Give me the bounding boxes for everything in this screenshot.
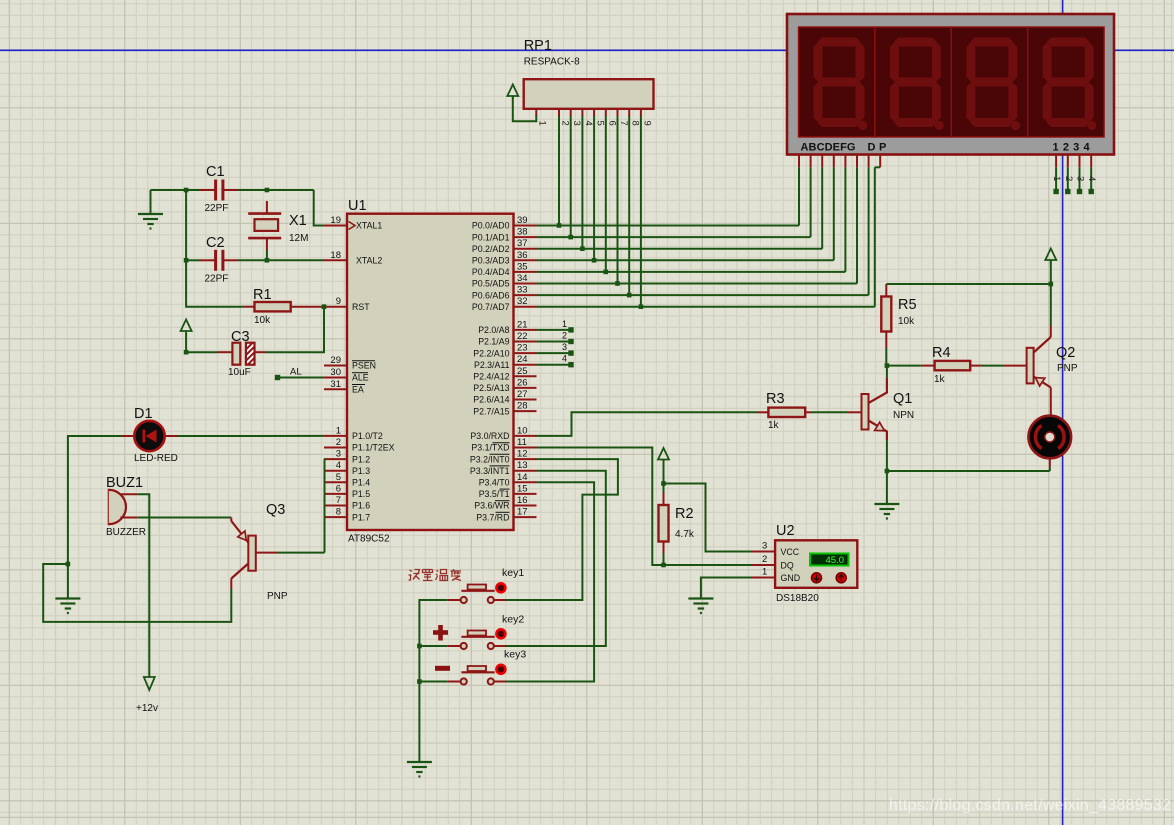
svg-text:25: 25 xyxy=(517,366,528,377)
junction RP1/P0.6 xyxy=(627,293,632,298)
svg-text:34: 34 xyxy=(517,273,528,284)
wire RP1 pin 8 to P0.6 xyxy=(628,116,630,296)
svg-text:XTAL1: XTAL1 xyxy=(356,221,382,231)
capacitor C3 (electrolytic) xyxy=(255,351,267,353)
capacitor C1 xyxy=(200,189,215,191)
svg-text:4: 4 xyxy=(336,460,341,471)
ground (keys) xyxy=(407,762,432,777)
svg-text:P1.4: P1.4 xyxy=(352,478,370,488)
junction D1/ground xyxy=(66,562,71,567)
resistor pack RP1 xyxy=(524,79,654,109)
wire display digit pin 1 xyxy=(1055,167,1057,190)
wire RP1 pin 7 to P0.5 xyxy=(617,116,619,284)
buzzer BUZ1 xyxy=(109,490,126,524)
pushbutton key1 xyxy=(468,585,486,590)
RP1 pin 8 stub xyxy=(628,109,630,116)
U1 pin 39 stub xyxy=(514,225,537,227)
svg-text:P0.7/AD7: P0.7/AD7 xyxy=(472,302,510,312)
power VCC arrow (RP1) xyxy=(507,85,518,100)
resistor R4 xyxy=(887,365,921,367)
svg-text:29: 29 xyxy=(330,355,341,366)
junction R2 top xyxy=(661,481,666,486)
svg-text:P2.5/A13: P2.5/A13 xyxy=(473,383,509,393)
U1 pin 32 stub xyxy=(514,306,537,308)
U1 pin 14 stub xyxy=(514,481,537,483)
motor xyxy=(1029,416,1072,459)
svg-text:1k: 1k xyxy=(768,420,780,431)
wire C2/X1 to XTAL2 xyxy=(186,259,200,261)
ground (C1) xyxy=(150,190,152,214)
U1 pin 11 stub xyxy=(514,447,537,449)
wire VCC rail down to Q2 emitter xyxy=(1050,284,1052,326)
digit 4 segments xyxy=(1043,38,1097,131)
U1 overbars P3 names xyxy=(493,442,510,444)
sensor U2 DS18B20 body xyxy=(775,540,857,588)
svg-text:NPN: NPN xyxy=(893,410,914,421)
svg-text:AL: AL xyxy=(290,367,302,378)
wire key1 to P3.2 xyxy=(506,459,618,600)
svg-text:2: 2 xyxy=(562,331,567,341)
svg-text:2: 2 xyxy=(336,437,341,448)
wire C1 net (top) xyxy=(151,189,187,191)
svg-text:1: 1 xyxy=(562,319,567,329)
RP1 pin 2 stub xyxy=(558,109,560,116)
wire left rail C1-C2 xyxy=(185,190,187,260)
svg-text:9: 9 xyxy=(336,296,341,307)
RP1 pin 3 stub xyxy=(570,109,572,116)
U1 pin 3 stub xyxy=(324,458,347,460)
svg-text:R5: R5 xyxy=(898,297,917,313)
svg-text:30: 30 xyxy=(330,367,341,378)
U1 pin 17 stub xyxy=(514,516,537,518)
svg-text:37: 37 xyxy=(517,238,528,249)
digit 2 segments xyxy=(890,38,944,131)
U1 pin 34 stub xyxy=(514,283,537,285)
svg-text:P3.2/INT0: P3.2/INT0 xyxy=(470,454,510,464)
svg-text:7: 7 xyxy=(336,495,341,506)
svg-text:1: 1 xyxy=(537,121,548,126)
svg-text:15: 15 xyxy=(517,483,528,494)
svg-text:3: 3 xyxy=(571,121,582,126)
svg-text:P1.2: P1.2 xyxy=(352,454,370,464)
svg-text:10k: 10k xyxy=(254,315,271,326)
junction R2 bottom xyxy=(661,563,666,568)
svg-text:VCC: VCC xyxy=(781,547,800,557)
ground (left loop) xyxy=(55,599,80,614)
svg-text:22PF: 22PF xyxy=(205,203,229,214)
svg-text:C1: C1 xyxy=(206,164,225,180)
label 设置温度 (set temperature) xyxy=(409,569,462,581)
wire RP1 pin 6 to P0.4 xyxy=(605,116,607,272)
wire P0.3 net (pin 36 to display) xyxy=(537,259,834,261)
svg-text:9: 9 xyxy=(641,121,652,126)
U1 pin 7 stub xyxy=(324,505,347,507)
svg-text:P2.2/A10: P2.2/A10 xyxy=(473,348,509,358)
svg-text:17: 17 xyxy=(517,507,528,518)
svg-text:3: 3 xyxy=(762,541,767,552)
junction left rail top xyxy=(184,188,189,193)
svg-text:P3.5/T1: P3.5/T1 xyxy=(479,489,510,499)
wire RST to C3 xyxy=(266,307,324,353)
U1 pin 27 stub xyxy=(514,399,537,401)
power VCC arrow (motor) xyxy=(1045,249,1056,264)
digit 1 segments xyxy=(814,38,868,131)
svg-text:1k: 1k xyxy=(934,374,946,385)
U2 pin 3 stub xyxy=(752,551,776,553)
svg-text:P0.4/AD4: P0.4/AD4 xyxy=(472,267,510,277)
svg-text:2: 2 xyxy=(560,121,571,126)
U2 pin 2 stub xyxy=(752,564,776,566)
RP1 pin 7 stub xyxy=(617,109,619,116)
svg-text:22PF: 22PF xyxy=(205,274,229,285)
svg-text:23: 23 xyxy=(517,343,528,354)
U1 pin 28 stub xyxy=(514,410,537,412)
svg-text:U2: U2 xyxy=(776,523,795,539)
svg-text:R3: R3 xyxy=(766,391,785,407)
wire RP1 pin 2 to P0.0 xyxy=(558,116,560,226)
wire RP1 pin 5 to P0.3 xyxy=(593,116,595,261)
junction RP1/P0.7 xyxy=(639,304,644,309)
svg-text:35: 35 xyxy=(517,261,528,272)
junction RP1/P0.4 xyxy=(604,270,609,275)
U1 pin 8 stub xyxy=(324,516,347,518)
U2 temperature readout 45.0 xyxy=(810,554,849,566)
junction RP1/P0.5 xyxy=(615,281,620,286)
svg-text:7: 7 xyxy=(618,121,629,126)
svg-text:P1.0/T2: P1.0/T2 xyxy=(352,431,383,441)
wire VCC to U2 pin3 xyxy=(664,484,752,552)
wire P0.2 net (pin 37 to display) xyxy=(537,248,823,250)
svg-text:P0.0/AD0: P0.0/AD0 xyxy=(472,221,510,231)
svg-text:P3.4/T0: P3.4/T0 xyxy=(479,478,510,488)
svg-text:19: 19 xyxy=(330,215,341,226)
svg-text:P3.3/INT1: P3.3/INT1 xyxy=(470,466,510,476)
svg-text:3: 3 xyxy=(562,342,567,352)
svg-text:36: 36 xyxy=(517,250,528,261)
svg-text:5: 5 xyxy=(595,121,606,126)
svg-text:45.0: 45.0 xyxy=(826,555,845,566)
svg-text:Q3: Q3 xyxy=(266,502,285,518)
svg-text:Q2: Q2 xyxy=(1056,345,1075,361)
svg-text:PNP: PNP xyxy=(267,591,288,602)
wire P2.1 net terminal xyxy=(537,341,570,343)
pushbutton key2 xyxy=(468,631,486,636)
svg-text:P2.1/A9: P2.1/A9 xyxy=(478,337,509,347)
svg-text:R1: R1 xyxy=(253,287,272,303)
svg-text:P1.1/T2EX: P1.1/T2EX xyxy=(352,443,395,453)
RP1 pin 5 stub xyxy=(593,109,595,116)
RP1 pin 9 stub xyxy=(640,109,642,116)
U2 down button xyxy=(812,573,822,583)
svg-text:1234: 1234 xyxy=(1053,142,1094,154)
svg-text:4: 4 xyxy=(562,354,567,364)
svg-text:24: 24 xyxy=(517,354,528,365)
svg-text:ALE: ALE xyxy=(352,373,369,383)
junction C2 left xyxy=(184,258,189,263)
transistor Q2 (PNP) xyxy=(1027,348,1034,384)
U1 pin 22 stub xyxy=(514,341,537,343)
terminal digit 3 xyxy=(1077,189,1082,194)
minus symbol xyxy=(435,666,450,671)
wire key2 to P3.3 xyxy=(506,471,606,646)
terminal AL xyxy=(275,375,280,380)
svg-text:AT89C52: AT89C52 xyxy=(348,534,390,545)
svg-text:6: 6 xyxy=(336,483,341,494)
wire RP1 pin 3 to P0.1 xyxy=(570,116,572,238)
svg-text:RST: RST xyxy=(352,302,370,312)
wire BUZ1 top to +12v xyxy=(138,494,150,677)
sheet border horizontal (blue) xyxy=(0,49,1174,51)
wire R3 to Q1 base xyxy=(812,411,848,413)
U1 overbars PSEN ALE EA xyxy=(352,360,375,362)
U1 pin 4 stub xyxy=(324,470,347,472)
plus symbol xyxy=(433,625,448,641)
svg-text:X1: X1 xyxy=(289,213,307,229)
svg-text:5: 5 xyxy=(336,472,341,483)
display segment pin stubs xyxy=(798,155,800,168)
svg-text:P0.5/AD5: P0.5/AD5 xyxy=(472,279,510,289)
wire bottom rail Q1 emitter to motor xyxy=(887,470,1050,472)
junction X1 bottom xyxy=(265,258,270,263)
U1 pin 30 stub xyxy=(324,377,347,379)
display digit panel 4 xyxy=(1028,27,1104,137)
svg-text:PSEN: PSEN xyxy=(352,361,376,371)
svg-text:C2: C2 xyxy=(206,235,225,251)
digit 3 segments xyxy=(966,38,1020,131)
svg-text:P3.0/RXD: P3.0/RXD xyxy=(470,431,509,441)
svg-text:4: 4 xyxy=(583,121,594,126)
wire X1 bottom to XTAL2 net xyxy=(266,250,268,260)
junction RP1/P0.1 xyxy=(568,235,573,240)
svg-text:1: 1 xyxy=(336,425,341,436)
wire P2.0 net terminal xyxy=(537,329,570,331)
wire P0.0 net (pin 39 to display) xyxy=(537,225,800,227)
svg-text:P1.3: P1.3 xyxy=(352,466,370,476)
wire C3 to VCC xyxy=(186,351,218,353)
svg-text:P1.5: P1.5 xyxy=(352,489,370,499)
junction RST xyxy=(322,304,327,309)
ground (Q1) xyxy=(874,504,899,519)
display digit panel 1 xyxy=(799,27,875,137)
U1 pin 33 stub xyxy=(514,294,537,296)
junction key2 rail xyxy=(417,644,422,649)
svg-text:18: 18 xyxy=(330,250,341,261)
svg-text:BUZ1: BUZ1 xyxy=(106,475,143,491)
wire display digit pin 2 xyxy=(1067,167,1069,190)
svg-text:38: 38 xyxy=(517,227,528,238)
capacitor C2 xyxy=(200,259,215,261)
U1 pin 1 stub xyxy=(324,435,347,437)
svg-text:2: 2 xyxy=(762,554,767,565)
svg-text:DS18B20: DS18B20 xyxy=(776,593,819,604)
display digit panel 2 xyxy=(875,27,951,137)
resistor R5 xyxy=(881,297,891,332)
svg-text:27: 27 xyxy=(517,389,528,400)
svg-text:P3.7/RD: P3.7/RD xyxy=(476,512,509,522)
svg-text:D1: D1 xyxy=(134,406,153,422)
svg-text:DP: DP xyxy=(868,142,890,154)
svg-text:11: 11 xyxy=(517,437,527,448)
power +12v arrow xyxy=(144,677,155,690)
power VCC arrow (C3) xyxy=(181,320,192,335)
U1 pin 26 stub xyxy=(514,387,537,389)
svg-text:Q1: Q1 xyxy=(893,391,912,407)
wire to ground (left) xyxy=(67,564,69,599)
U2 pin 1 stub xyxy=(752,577,776,579)
svg-text:8: 8 xyxy=(630,121,641,126)
wire display digit pin 3 xyxy=(1079,167,1081,190)
wire Q3 collector to ground loop xyxy=(43,564,231,622)
svg-text:P3.6/WR: P3.6/WR xyxy=(474,501,509,511)
svg-text:3: 3 xyxy=(1075,176,1086,181)
svg-text:R4: R4 xyxy=(932,345,951,361)
wire U2 GND to ground xyxy=(701,578,752,599)
svg-text:10: 10 xyxy=(517,425,528,436)
junction key3 rail xyxy=(417,679,422,684)
wire P2.2 net terminal xyxy=(537,352,570,354)
LED D1 xyxy=(122,435,134,437)
svg-text:22: 22 xyxy=(517,331,528,342)
wire Q1 emitter down xyxy=(886,440,888,471)
junction C1/X1 top xyxy=(265,188,270,193)
wire P3.1 to DQ xyxy=(537,448,752,566)
key3 actuator dot xyxy=(496,665,505,674)
svg-text:P2.6/A14: P2.6/A14 xyxy=(473,395,509,405)
svg-text:RP1: RP1 xyxy=(524,38,552,54)
wire key3 to P3.4 xyxy=(506,482,594,681)
svg-text:P0.3/AD3: P0.3/AD3 xyxy=(472,256,510,266)
svg-text:R2: R2 xyxy=(675,506,694,522)
svg-text:P0.1/AD1: P0.1/AD1 xyxy=(472,232,510,242)
wire D1 cathode net xyxy=(68,436,122,564)
transistor Q3 (PNP) xyxy=(248,536,256,571)
resistor R3 xyxy=(758,411,769,413)
svg-text:PNP: PNP xyxy=(1057,363,1078,374)
svg-text:P1.6: P1.6 xyxy=(352,501,370,511)
display digit pin stubs xyxy=(1055,155,1057,168)
svg-text:13: 13 xyxy=(517,460,528,471)
crystal X1 xyxy=(266,201,268,214)
wire D1 anode net xyxy=(177,435,324,437)
power VCC arrow (R2) xyxy=(658,448,669,463)
svg-text:C3: C3 xyxy=(231,329,250,345)
U1 pin 23 stub xyxy=(514,352,537,354)
junction RP1/P0.0 xyxy=(557,223,562,228)
RP1 pin 6 stub xyxy=(605,109,607,116)
transistor Q1 (NPN) xyxy=(848,411,862,413)
wire BUZ1 bottom to Q3 emitter xyxy=(138,517,232,519)
svg-text:key1: key1 xyxy=(502,567,524,579)
wire display digit pin 4 xyxy=(1090,167,1092,190)
svg-text:16: 16 xyxy=(517,495,528,506)
wire R5 top to VCC rail xyxy=(886,283,1051,285)
sheet border vertical (blue) xyxy=(1062,0,1064,825)
svg-text:4.7k: 4.7k xyxy=(675,529,695,540)
junction R5/R4/Q1 xyxy=(885,363,890,368)
wire Q3 base to P1.2 xyxy=(278,552,325,554)
svg-text:U1: U1 xyxy=(348,198,367,214)
svg-text:10uF: 10uF xyxy=(228,367,251,378)
U1 pin 36 stub xyxy=(514,259,537,261)
RP1 pin 4 stub xyxy=(581,109,583,116)
svg-text:10k: 10k xyxy=(898,316,915,327)
svg-text:3: 3 xyxy=(336,449,341,460)
svg-text:key2: key2 xyxy=(502,614,524,626)
svg-text:12M: 12M xyxy=(289,233,308,244)
wire RP1 pin1 to VCC xyxy=(513,97,537,122)
svg-text:1: 1 xyxy=(1051,176,1062,181)
svg-text:BUZZER: BUZZER xyxy=(106,527,146,538)
U1 pin 29 stub xyxy=(324,365,347,367)
U1 pin 38 stub xyxy=(514,236,537,238)
svg-text:32: 32 xyxy=(517,296,528,307)
U1 pin 37 stub xyxy=(514,248,537,250)
svg-text:LED-RED: LED-RED xyxy=(134,453,178,464)
svg-text:4: 4 xyxy=(1086,176,1097,181)
U1 pin 16 stub xyxy=(514,505,537,507)
U1 pin 13 stub xyxy=(514,470,537,472)
wire P0.7 net (pin 32 to display DP) xyxy=(537,306,875,308)
U1 pin 31 stub xyxy=(324,388,347,390)
U1 pin 10 stub xyxy=(514,435,537,437)
wire P0.6 net (pin 33 to display) xyxy=(537,294,869,296)
svg-text:key3: key3 xyxy=(504,649,526,661)
svg-text:P0.2/AD2: P0.2/AD2 xyxy=(472,244,510,254)
svg-text:P2.7/A15: P2.7/A15 xyxy=(473,406,509,416)
ground (U2) xyxy=(688,599,713,614)
wire left rail to R1 xyxy=(186,260,243,306)
junction RP1/P0.2 xyxy=(580,246,585,251)
U1 pin 12 stub xyxy=(514,458,537,460)
svg-text:26: 26 xyxy=(517,377,528,388)
junction Q1 emitter xyxy=(885,469,890,474)
display digit panel 3 xyxy=(951,27,1027,137)
wire keys left rail xyxy=(419,600,447,762)
display 7SEG-MPX4 body xyxy=(787,14,1114,155)
wire P2.3 net terminal xyxy=(537,364,570,366)
svg-text:21: 21 xyxy=(517,319,528,330)
U1 pin 25 stub xyxy=(514,375,537,377)
wire C1 to XTAL1 xyxy=(237,189,267,191)
svg-text:P0.6/AD6: P0.6/AD6 xyxy=(472,290,510,300)
svg-text:8: 8 xyxy=(336,507,341,518)
svg-text:EA: EA xyxy=(352,385,364,395)
junction C3 left xyxy=(184,350,189,355)
wire P0.5 net (pin 34 to display) xyxy=(537,283,858,285)
resistor R2 xyxy=(659,505,669,542)
wire Q1 collector to R5/R4 node xyxy=(886,366,888,378)
U1 pin 19 stub xyxy=(324,225,347,227)
U1 pin 5 stub xyxy=(324,481,347,483)
U1 pin 15 stub xyxy=(514,493,537,495)
junction VCC rail xyxy=(1049,282,1054,287)
U1 pin 2 stub xyxy=(324,447,347,449)
U1 chip body xyxy=(347,214,514,530)
svg-text:+12v: +12v xyxy=(136,703,158,714)
junction RP1/P0.3 xyxy=(592,258,597,263)
U1 pin 18 stub xyxy=(324,259,347,261)
wire R2 top to VCC xyxy=(663,460,665,484)
wire ALE net xyxy=(280,377,324,379)
U1 pin 9 stub xyxy=(324,306,347,308)
svg-text:33: 33 xyxy=(517,285,528,296)
svg-text:P2.0/A8: P2.0/A8 xyxy=(478,325,509,335)
watermark xyxy=(889,797,1171,815)
terminal digit 4 xyxy=(1089,189,1094,194)
wire P0.4 net (pin 35 to display) xyxy=(537,271,846,273)
svg-text:14: 14 xyxy=(517,472,528,483)
wire RP1 pin 9 to P0.7 xyxy=(640,116,642,307)
